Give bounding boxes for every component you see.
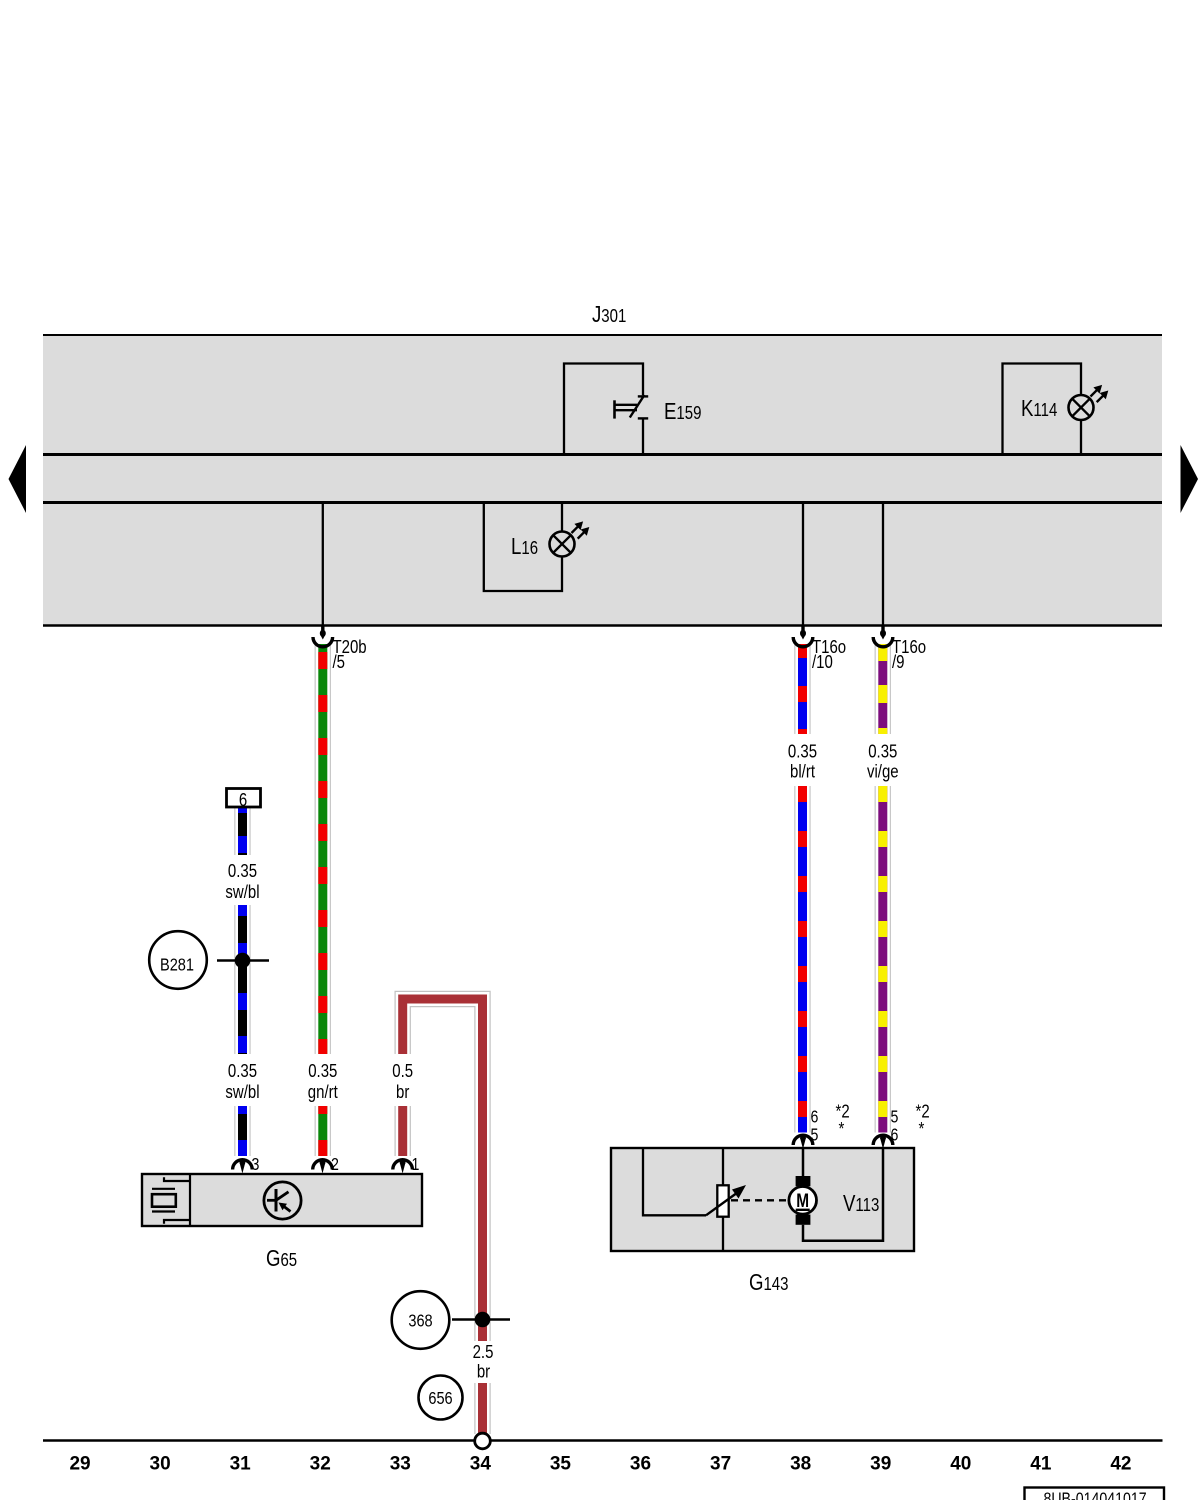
svg-text:*: * <box>839 1119 845 1140</box>
lamp L16 frame <box>484 504 562 592</box>
label * right <box>919 1119 925 1140</box>
wire stub to T16o/9 <box>882 504 884 626</box>
J301 band inner bus line lower <box>43 501 1162 504</box>
svg-text:br: br <box>477 1361 491 1382</box>
svg-text:M: M <box>796 1189 809 1211</box>
wire gn/rt upper segment <box>315 644 316 1054</box>
label * left <box>839 1119 845 1140</box>
sensor G65 divider <box>189 1174 191 1226</box>
diagram code box <box>1025 1488 1165 1500</box>
label 0.35 bl/rt <box>788 741 817 762</box>
svg-text:gn/rt: gn/rt <box>308 1082 338 1103</box>
svg-text:6: 6 <box>891 1126 899 1145</box>
svg-text:0.35: 0.35 <box>868 741 897 762</box>
wire vi/ge upper segment <box>875 644 876 734</box>
svg-text:39: 39 <box>870 1454 891 1475</box>
motor V113 lower brush <box>796 1215 811 1225</box>
switch E159 top contact <box>638 395 648 397</box>
svg-text:42: 42 <box>1110 1454 1131 1475</box>
label 0.5 br <box>392 1061 413 1082</box>
label G143 <box>749 1270 788 1295</box>
wire bl/rt upper segment <box>794 644 795 734</box>
wire sw/bl segment below terminal 6 box <box>234 807 235 855</box>
svg-text:B281: B281 <box>160 955 194 975</box>
motor V113 body <box>789 1187 817 1215</box>
svg-text:41: 41 <box>1030 1454 1052 1475</box>
label 0.35 gn/rt <box>308 1061 337 1082</box>
svg-text:6: 6 <box>239 790 247 811</box>
J301 band inner bus line upper <box>43 453 1162 456</box>
svg-text:*: * <box>919 1119 925 1140</box>
node 656 circle <box>419 1376 463 1420</box>
svg-text:G65: G65 <box>266 1246 297 1271</box>
svg-text:33: 33 <box>390 1454 411 1475</box>
label pin 2 <box>331 1156 339 1175</box>
G65 pin 2 <box>313 1160 333 1170</box>
label 0.35 sw/bl lower <box>228 1061 257 1082</box>
wire br lower segment to ground <box>474 1383 490 1434</box>
control unit J301 band background <box>43 334 1162 625</box>
switch E159 lever <box>630 395 645 418</box>
sensor G143 box <box>611 1148 914 1251</box>
svg-text:32: 32 <box>310 1454 331 1475</box>
svg-text:L16: L16 <box>511 534 538 559</box>
label 0.35 vi/ge <box>868 741 897 762</box>
svg-text:5: 5 <box>891 1108 899 1127</box>
label L16 <box>511 534 538 559</box>
label B281 <box>160 955 194 975</box>
motor V113 return wire <box>803 1149 883 1241</box>
svg-text:2: 2 <box>331 1156 339 1175</box>
svg-text:/10: /10 <box>812 652 833 673</box>
G143 pin 5/6 <box>873 1135 893 1145</box>
wire br from G65 pin1 <box>395 1106 411 1156</box>
label 656 <box>428 1389 452 1409</box>
label pin 1 <box>412 1156 420 1175</box>
current track numbers 29-42 <box>69 1454 90 1475</box>
wire gn/rt lower segment <box>315 1106 316 1156</box>
svg-text:37: 37 <box>710 1454 731 1475</box>
svg-text:3: 3 <box>252 1156 260 1175</box>
right continuation arrow <box>1181 445 1199 513</box>
G65 pin 1 <box>393 1160 413 1170</box>
label J301 <box>592 302 626 327</box>
label pin 6 over 5 <box>811 1108 819 1127</box>
svg-text:bl/rt: bl/rt <box>790 761 815 782</box>
potentiometer wiper arrow <box>706 1193 738 1216</box>
left continuation arrow <box>9 445 27 513</box>
switch E159 frame <box>564 364 643 455</box>
svg-text:30: 30 <box>149 1454 170 1475</box>
lamp K114 lower lead <box>1080 420 1082 454</box>
svg-text:8UB-014041017: 8UB-014041017 <box>1043 1490 1146 1500</box>
svg-text:35: 35 <box>550 1454 572 1475</box>
G65 pin 3 <box>233 1160 253 1170</box>
label 6 <box>239 790 247 811</box>
label 368 <box>408 1311 432 1331</box>
lamp K114 bulb <box>1069 395 1094 420</box>
svg-text:0.35: 0.35 <box>788 741 817 762</box>
connector T20b/5 <box>321 626 324 631</box>
terminal 6 box <box>227 789 261 808</box>
svg-text:1: 1 <box>412 1156 420 1175</box>
svg-text:29: 29 <box>69 1454 90 1475</box>
svg-text:K114: K114 <box>1021 396 1057 421</box>
J301 band top border line <box>43 334 1162 336</box>
label pin 5 over 6 <box>891 1108 899 1127</box>
sensor G65 symbol <box>275 1189 278 1212</box>
svg-text:0.5: 0.5 <box>392 1061 413 1082</box>
svg-text:0.35: 0.35 <box>228 861 257 882</box>
lamp L16 upper lead <box>561 504 563 532</box>
connector T16o/9 <box>881 626 884 631</box>
connector T16o/10 <box>801 626 804 631</box>
svg-text:G143: G143 <box>749 1270 788 1295</box>
label G65 <box>266 1246 297 1271</box>
motor V113 upper lead <box>802 1149 805 1176</box>
svg-text:38: 38 <box>790 1454 811 1475</box>
label 0.35 sw/bl upper <box>228 861 257 882</box>
svg-text:34: 34 <box>470 1454 492 1475</box>
wire sw/bl middle segment <box>234 905 235 1054</box>
svg-text:368: 368 <box>408 1311 432 1331</box>
node 368 crossbar <box>452 1318 510 1321</box>
wire bl/rt lower segment <box>794 786 795 1133</box>
label V113 <box>843 1191 879 1216</box>
lamp K114 frame <box>1003 364 1082 455</box>
G143 potentiometer wire <box>722 1149 724 1250</box>
svg-text:/5: /5 <box>333 652 346 673</box>
node B281 junction dot <box>235 953 251 969</box>
svg-text:40: 40 <box>950 1454 971 1475</box>
label *2 right <box>916 1101 930 1122</box>
svg-text:V113: V113 <box>843 1191 879 1216</box>
G143 pin 6/5 <box>793 1135 813 1145</box>
node B281 crossbar <box>217 959 269 962</box>
svg-text:J301: J301 <box>592 302 626 327</box>
lamp K114 LED arrows <box>1091 390 1098 397</box>
svg-text:36: 36 <box>630 1454 651 1475</box>
lamp L16 bulb <box>550 532 575 557</box>
svg-text:5: 5 <box>811 1126 819 1145</box>
wire sw/bl lower segment <box>234 1106 235 1156</box>
svg-text:sw/bl: sw/bl <box>225 1082 259 1103</box>
label 8UB-014041017 <box>1043 1490 1146 1500</box>
label K114 <box>1021 396 1057 421</box>
node B281 circle <box>149 931 207 989</box>
motor V113 upper brush <box>796 1176 811 1186</box>
G143 internal left wire <box>643 1149 706 1215</box>
svg-text:br: br <box>396 1082 410 1103</box>
switch E159 lower lead <box>642 418 644 454</box>
label *2 left <box>836 1101 850 1122</box>
svg-text:0.35: 0.35 <box>308 1061 337 1082</box>
svg-text:6: 6 <box>811 1108 819 1127</box>
wire stub to T20b/5 <box>322 504 324 626</box>
bottom current track rail <box>43 1439 1163 1442</box>
svg-text:vi/ge: vi/ge <box>867 761 899 782</box>
sensor G65 box <box>142 1174 422 1226</box>
switch E159 manual actuator <box>613 400 616 418</box>
wire stub to T16o/10 <box>802 504 804 626</box>
ground connection open node <box>475 1433 491 1449</box>
coupling dashed line <box>731 1199 789 1201</box>
label 2.5 br <box>473 1342 494 1363</box>
lamp L16 LED arrows <box>572 526 579 533</box>
svg-text:E159: E159 <box>664 399 701 424</box>
svg-text:656: 656 <box>428 1389 452 1409</box>
label T16o/9 <box>892 637 926 658</box>
motor V113 M letter <box>796 1189 809 1211</box>
label pin 3 <box>252 1156 260 1175</box>
switch E159 bottom contact <box>638 417 648 419</box>
potentiometer resistor body <box>717 1185 728 1216</box>
J301 band bottom border line <box>43 624 1162 627</box>
label T20b/5 <box>333 637 367 658</box>
svg-text:31: 31 <box>230 1454 252 1475</box>
svg-text:sw/bl: sw/bl <box>225 882 259 903</box>
svg-text:/9: /9 <box>892 652 905 673</box>
svg-text:0.35: 0.35 <box>228 1061 257 1082</box>
label T16o/10 <box>812 637 846 658</box>
wire br loop over to column 34 <box>403 999 483 1341</box>
sensor G65 plug symbol <box>164 1177 189 1181</box>
node 368 circle <box>392 1291 450 1349</box>
label E159 <box>664 399 701 424</box>
sensor G65 symbol circle <box>264 1182 301 1219</box>
node 368 junction dot <box>475 1312 491 1328</box>
wire vi/ge lower segment <box>875 786 876 1133</box>
svg-text:2.5: 2.5 <box>473 1342 494 1363</box>
